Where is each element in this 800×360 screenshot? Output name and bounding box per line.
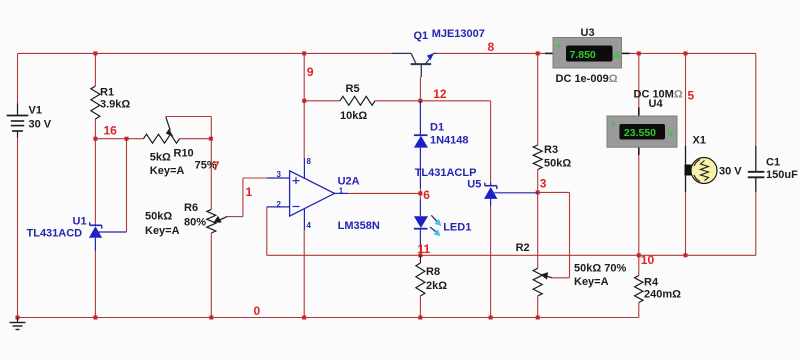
svg-text:MJE13007: MJE13007 [432, 28, 485, 40]
svg-text:TL431ACD: TL431ACD [27, 228, 83, 240]
wire op-amp pin 4 down to ground rail [303, 230, 305, 318]
resistor R5 10k [340, 83, 375, 122]
junction ground at V1 bottom [16, 316, 20, 320]
svg-text:2kΩ: 2kΩ [426, 280, 447, 292]
svg-text:V1: V1 [29, 105, 42, 117]
svg-text:12: 12 [433, 87, 447, 101]
junction node 9 at R5 left [302, 99, 306, 103]
wire R4 bottom to ground rail [638, 303, 640, 318]
wire U1 anode to ground rail [94, 251, 96, 318]
svg-text:R10: R10 [174, 148, 194, 160]
svg-text:11: 11 [418, 242, 431, 256]
svg-text:1N4148: 1N4148 [430, 135, 469, 147]
potentiometer R6 50k [145, 202, 227, 237]
svg-text:8: 8 [488, 40, 495, 54]
svg-text:3.9kΩ: 3.9kΩ [100, 99, 130, 111]
junction R1 top on net 4 rail [93, 51, 97, 55]
svg-text:10kΩ: 10kΩ [340, 110, 367, 122]
svg-text:D1: D1 [430, 122, 444, 134]
svg-text:DC 10MΩ: DC 10MΩ [634, 88, 683, 100]
svg-text:6: 6 [423, 188, 430, 202]
svg-text:2: 2 [277, 200, 282, 209]
svg-text:80%: 80% [184, 217, 206, 229]
svg-text:LED1: LED1 [443, 222, 471, 234]
junction ground at R6 bottom [209, 316, 213, 320]
svg-text:50kΩ: 50kΩ [145, 211, 172, 223]
svg-text:R3: R3 [544, 144, 558, 156]
svg-text:V: V [667, 128, 674, 139]
svg-text:U5: U5 [467, 179, 481, 191]
potentiometer R10 5k [144, 117, 217, 177]
svg-text:5kΩ: 5kΩ [150, 151, 171, 163]
svg-text:150uF: 150uF [766, 169, 798, 181]
svg-text:R1: R1 [100, 87, 114, 99]
voltmeter U4 [607, 88, 683, 155]
junction node 10 at R4 top [637, 253, 641, 257]
svg-text:U3: U3 [581, 27, 595, 39]
junction node 6 at op-amp output [418, 191, 422, 195]
junction ground at R2 bottom [536, 316, 540, 320]
wire R1 top [94, 53, 96, 86]
svg-text:8: 8 [307, 157, 312, 166]
wire R3 top from rail [537, 53, 539, 145]
resistor R4 240m [635, 276, 682, 303]
junction ground at R8 bottom [418, 316, 422, 320]
wire R6 bottom to ground rail [210, 233, 212, 318]
junction node 16 at R1 bottom [93, 137, 97, 141]
svg-text:9: 9 [307, 65, 314, 79]
wire node 3 to R2 top crossing node11 line [537, 192, 539, 268]
wire node 6 segments on LED column [419, 188, 421, 200]
junction ground at U1 anode [93, 316, 97, 320]
svg-text:R8: R8 [426, 266, 440, 278]
svg-text:30 V: 30 V [29, 119, 52, 131]
svg-text:50kΩ: 50kΩ [544, 158, 571, 170]
svg-text:DC 1e-009Ω: DC 1e-009Ω [556, 73, 618, 85]
wire U5 anode down to ground rail [490, 206, 492, 318]
transistor Q1 MJE13007 [392, 28, 485, 77]
junction node 16 at U1 ref [125, 137, 129, 141]
svg-text:0: 0 [254, 304, 261, 318]
wire top rail U3 to right corner [630, 52, 756, 54]
svg-text:50kΩ 70%: 50kΩ 70% [574, 263, 626, 275]
potentiometer R2 50k [516, 242, 627, 296]
wire R4 top lead [638, 255, 640, 275]
wire R8 bottom to ground rail [419, 296, 421, 318]
ammeter U3 [545, 27, 630, 85]
junction node 11 at LED1 cathode [418, 253, 422, 257]
wire node 11/10 horizontal line [267, 254, 756, 256]
wire C1 bottom to node 10 line [755, 192, 757, 255]
wire node 16 to U1 cathode [94, 139, 96, 224]
wire U4 top red [638, 53, 640, 107]
svg-text:7: 7 [213, 159, 220, 173]
svg-text:30 V: 30 V [719, 166, 742, 178]
diode D1 1N4148 [414, 101, 469, 188]
wire X1 lamp top [685, 53, 687, 146]
junction node 3 at R3 bottom [536, 190, 540, 194]
wire R2 bottom to ground rail [537, 296, 539, 318]
junction X1 top on net 8 rail [684, 51, 688, 55]
wire minus input horizontal [266, 206, 269, 208]
junction ground at op-amp pin 4 [302, 316, 306, 320]
svg-text:Key=A: Key=A [145, 225, 180, 237]
svg-text:A: A [614, 50, 621, 61]
wire R6 wiper horizontal [227, 216, 243, 218]
wire R10 corner down through node to R6 [210, 117, 212, 210]
wire R5 left lead [304, 100, 340, 102]
svg-text:1: 1 [339, 186, 344, 195]
svg-text:+: + [611, 118, 616, 128]
wire node 9 vertical from rail to op-amp pin 8 [303, 53, 305, 158]
wire R3 bottom to node 3 [537, 170, 539, 193]
wire R2 wiper vertical [569, 192, 571, 277]
svg-text:U2A: U2A [338, 175, 360, 187]
wire U4 bottom to node 10 [638, 155, 640, 255]
wire node 3 horizontal to R2 wiper column [538, 191, 570, 193]
wire battery bottom to ground rail [17, 138, 19, 318]
svg-text:1: 1 [246, 185, 253, 199]
wire R5 right lead to node 12 [375, 100, 420, 102]
junction R3 top on net 8 rail [536, 51, 540, 55]
wire bottom ground rail [18, 317, 639, 319]
wire node 1 vertical up [242, 178, 244, 217]
wire node 1 to op-amp plus input [243, 177, 267, 179]
svg-text:X1: X1 [693, 135, 706, 147]
svg-text:-: - [611, 137, 614, 147]
svg-text:Key=A: Key=A [150, 165, 185, 177]
wire node 16 horizontal to R10 [95, 138, 143, 140]
svg-text:R4: R4 [644, 277, 659, 289]
svg-text:Q1: Q1 [414, 30, 429, 42]
junction ground at U5 anode [489, 316, 493, 320]
wire R2 wiper horizontal [552, 277, 570, 279]
battery V1 [7, 104, 52, 138]
LED1 [414, 200, 471, 250]
svg-text:U1: U1 [73, 216, 87, 228]
svg-text:16: 16 [104, 124, 118, 138]
junction U4 top on net 8 rail [637, 51, 641, 55]
resistor R8 2k [416, 255, 447, 296]
svg-text:3: 3 [277, 170, 282, 179]
wire right edge down to C1 [755, 53, 757, 146]
junction node 9 on top rail [302, 51, 306, 55]
svg-text:TL431ACLP: TL431ACLP [415, 167, 477, 179]
svg-text:R5: R5 [346, 83, 360, 95]
wire feedback from minus input down [266, 207, 268, 255]
junction node 12 at R5 right [418, 99, 422, 103]
svg-text:Key=A: Key=A [574, 276, 609, 288]
wire node 12 to U5 corner [420, 100, 490, 102]
svg-text:R2: R2 [516, 242, 530, 254]
svg-text:4: 4 [307, 221, 312, 230]
wire U1 reference vertical at x=126.5 [126, 139, 128, 232]
wire Q1 base to node 12 [419, 77, 421, 101]
wire R10 wiper top horizontal [166, 116, 212, 118]
wire R1 bottom to node 16 [94, 119, 96, 139]
resistor R3 50k [533, 144, 571, 170]
wire X1 lamp bottom to node 10 [685, 192, 687, 255]
svg-text:5: 5 [688, 89, 695, 103]
svg-text:+: + [557, 40, 562, 50]
svg-text:240mΩ: 240mΩ [644, 289, 681, 301]
wire top rail from V1 to Q1 collector [18, 52, 393, 54]
junction node 16 at R10 wiper [209, 137, 213, 141]
op-amp U2A LM358N [267, 157, 380, 232]
svg-text:LM358N: LM358N [338, 220, 380, 232]
ground [10, 318, 26, 330]
shunt reference U1 TL431ACD [27, 216, 127, 252]
wire U5 cathode drop [490, 101, 492, 183]
svg-text:C1: C1 [766, 157, 780, 169]
svg-text:3: 3 [540, 177, 547, 191]
svg-text:7.850: 7.850 [570, 49, 596, 61]
wire LED1 cathode to node 11 [419, 249, 421, 255]
shunt reference U5 TL431ACLP [415, 167, 538, 206]
junction node 10 at X1 bottom [684, 253, 688, 257]
wire top rail Q1 emitter to U3 ammeter [436, 52, 545, 54]
svg-text:R6: R6 [184, 202, 198, 214]
svg-text:10: 10 [641, 253, 655, 267]
svg-text:23.550: 23.550 [624, 127, 656, 139]
wire R10 right lead to corner [180, 138, 212, 140]
wire battery top [17, 53, 19, 103]
svg-text:-: - [615, 40, 618, 50]
resistor R1 3.9k [91, 86, 131, 119]
lamp X1 [685, 135, 743, 193]
wire op-amp output to node 6 [348, 192, 420, 194]
capacitor C1 150uF [748, 146, 798, 192]
